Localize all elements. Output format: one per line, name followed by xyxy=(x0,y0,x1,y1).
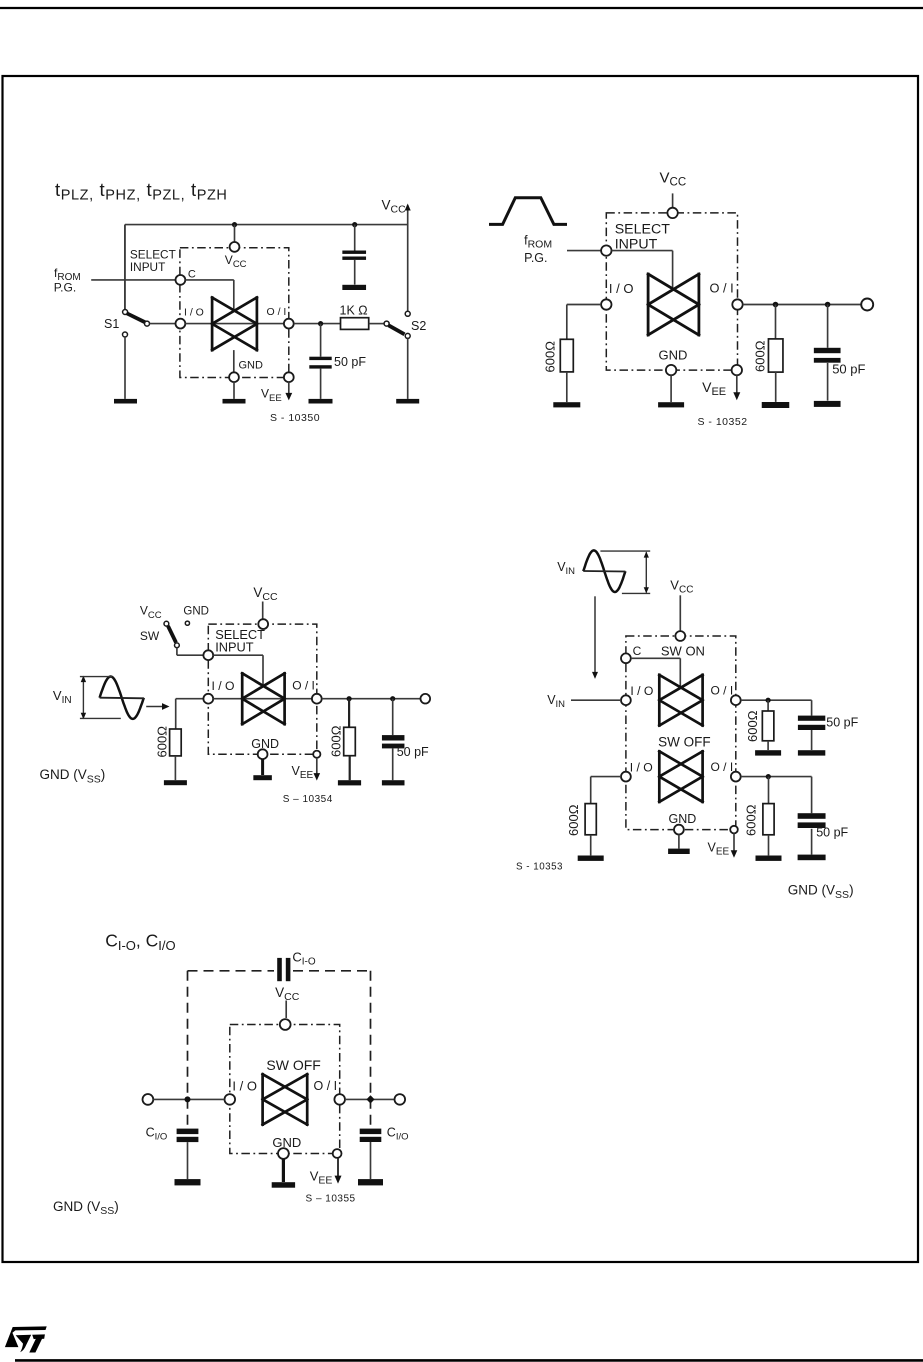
svg-text:S – 10355: S – 10355 xyxy=(306,1193,356,1204)
svg-text:I / O: I / O xyxy=(630,760,653,774)
svg-text:O / I: O / I xyxy=(711,760,734,774)
svg-text:600Ω: 600Ω xyxy=(744,804,759,836)
svg-text:600Ω: 600Ω xyxy=(745,710,760,742)
svg-text:50 pF: 50 pF xyxy=(397,745,429,759)
svg-text:SELECT: SELECT xyxy=(615,221,671,237)
svg-text:INPUT: INPUT xyxy=(215,640,254,655)
svg-text:O / I: O / I xyxy=(710,280,734,295)
svg-text:600Ω: 600Ω xyxy=(543,341,558,373)
svg-text:SW: SW xyxy=(140,629,160,643)
svg-text:SW OFF: SW OFF xyxy=(266,1057,320,1073)
svg-text:50 pF: 50 pF xyxy=(832,362,865,377)
svg-text:O / I: O / I xyxy=(314,1079,338,1093)
svg-text:SW ON: SW ON xyxy=(661,643,705,658)
svg-text:SW OFF: SW OFF xyxy=(658,734,711,749)
svg-text:GND: GND xyxy=(669,812,697,826)
svg-text:50 pF: 50 pF xyxy=(826,715,858,729)
svg-text:I / O: I / O xyxy=(184,306,204,318)
svg-text:50 pF: 50 pF xyxy=(816,825,848,839)
svg-text:C: C xyxy=(188,269,196,281)
svg-text:GND: GND xyxy=(239,359,264,371)
svg-text:C: C xyxy=(633,644,642,658)
svg-text:I / O: I / O xyxy=(232,1079,257,1094)
svg-text:GND: GND xyxy=(183,606,209,618)
svg-text:O / I: O / I xyxy=(292,678,315,692)
svg-text:I / O: I / O xyxy=(630,684,653,698)
svg-text:S2: S2 xyxy=(411,319,426,333)
svg-text:50 pF: 50 pF xyxy=(334,355,366,369)
svg-text:P.G.: P.G. xyxy=(54,281,76,295)
svg-text:600Ω: 600Ω xyxy=(566,804,581,836)
svg-text:O / I: O / I xyxy=(267,306,287,318)
svg-text:600Ω: 600Ω xyxy=(329,725,344,757)
svg-text:GND: GND xyxy=(251,737,279,751)
svg-text:600Ω: 600Ω xyxy=(753,340,768,372)
svg-text:INPUT: INPUT xyxy=(130,260,165,274)
svg-text:S - 10350: S - 10350 xyxy=(270,412,320,424)
svg-text:I / O: I / O xyxy=(212,679,235,693)
svg-text:S - 10352: S - 10352 xyxy=(698,416,748,428)
svg-text:O / I: O / I xyxy=(711,684,734,698)
svg-text:GND: GND xyxy=(659,347,688,362)
svg-text:1K Ω: 1K Ω xyxy=(340,304,368,318)
svg-text:GND: GND xyxy=(272,1135,301,1150)
svg-text:S1: S1 xyxy=(104,317,119,331)
svg-text:600Ω: 600Ω xyxy=(155,726,170,758)
svg-text:S – 10354: S – 10354 xyxy=(283,794,333,805)
svg-text:P.G.: P.G. xyxy=(524,251,547,265)
svg-text:S - 10353: S - 10353 xyxy=(516,861,563,872)
svg-text:I / O: I / O xyxy=(609,281,634,296)
